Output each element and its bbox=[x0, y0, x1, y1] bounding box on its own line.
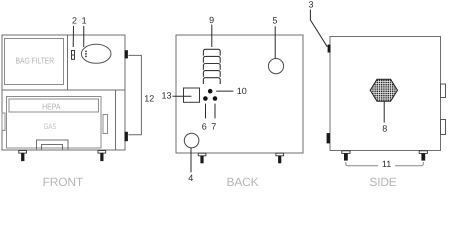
svg-text:13: 13 bbox=[161, 91, 171, 101]
svg-text:5: 5 bbox=[272, 16, 277, 26]
front right edge bottom latch bbox=[125, 132, 128, 141]
bolt dot 6 bbox=[203, 96, 208, 101]
svg-text:2: 2 bbox=[72, 16, 77, 26]
side foot right bbox=[419, 151, 427, 161]
front right edge top latch bbox=[125, 50, 128, 58]
side view box bbox=[330, 37, 441, 151]
hinge element 2 bbox=[72, 51, 75, 60]
bolt dot 10 bbox=[208, 89, 213, 94]
front view outer box bbox=[2, 35, 125, 150]
oval hinge dots bbox=[85, 51, 87, 58]
back foot left bbox=[198, 153, 206, 163]
hepa strip bbox=[9, 99, 99, 112]
side foot left bbox=[342, 151, 350, 161]
svg-text:FRONT: FRONT bbox=[43, 175, 84, 189]
dimension 11 bbox=[346, 162, 424, 166]
oval plate 1 bbox=[81, 44, 111, 63]
svg-text:BAG FILTER: BAG FILTER bbox=[16, 56, 55, 66]
side left top latch bbox=[328, 45, 331, 53]
svg-text:12: 12 bbox=[144, 94, 154, 104]
front foot left bbox=[19, 151, 27, 162]
svg-text:7: 7 bbox=[211, 122, 216, 132]
lower front door bbox=[6, 97, 101, 148]
label 7 bbox=[214, 104, 216, 119]
svg-text:8: 8 bbox=[382, 124, 387, 134]
svg-text:SIDE: SIDE bbox=[369, 175, 396, 189]
svg-text:BACK: BACK bbox=[227, 175, 259, 189]
door handle outer bbox=[37, 140, 69, 150]
front foot right bbox=[98, 151, 106, 162]
label 10 bbox=[216, 90, 233, 92]
label 8 bbox=[383, 101, 385, 122]
svg-text:HEPA: HEPA bbox=[42, 102, 61, 112]
bracket 12 bbox=[128, 55, 141, 134]
side right top tab bbox=[441, 84, 446, 98]
door right latch bbox=[103, 114, 108, 133]
louver stack 9 bbox=[203, 49, 220, 84]
front inner right panel line bbox=[114, 90, 116, 150]
back foot right bbox=[276, 153, 284, 163]
svg-text:9: 9 bbox=[209, 15, 214, 25]
bag filter door bbox=[5, 39, 64, 85]
mesh hexagon 8 bbox=[370, 79, 397, 101]
bolt dot 7 bbox=[213, 96, 218, 101]
svg-text:10: 10 bbox=[237, 86, 247, 96]
svg-text:GAS: GAS bbox=[44, 122, 57, 131]
label 4 bbox=[190, 148, 192, 172]
svg-text:4: 4 bbox=[188, 173, 193, 183]
svg-text:1: 1 bbox=[82, 16, 87, 26]
side right bottom tab bbox=[441, 119, 446, 134]
svg-text:3: 3 bbox=[308, 0, 313, 10]
back circle 4 bbox=[184, 133, 199, 148]
back circle 5 bbox=[268, 59, 283, 74]
door left latch bbox=[2, 113, 5, 131]
side left bottom latch bbox=[327, 133, 330, 143]
back view box bbox=[176, 35, 303, 153]
svg-text:11: 11 bbox=[382, 159, 391, 169]
door handle inner bbox=[42, 145, 63, 150]
svg-text:6: 6 bbox=[202, 122, 207, 132]
front horizontal divider bbox=[2, 89, 125, 91]
label 6 bbox=[205, 104, 207, 119]
inlet square 13 bbox=[184, 88, 200, 102]
front vertical partition bbox=[67, 35, 69, 90]
